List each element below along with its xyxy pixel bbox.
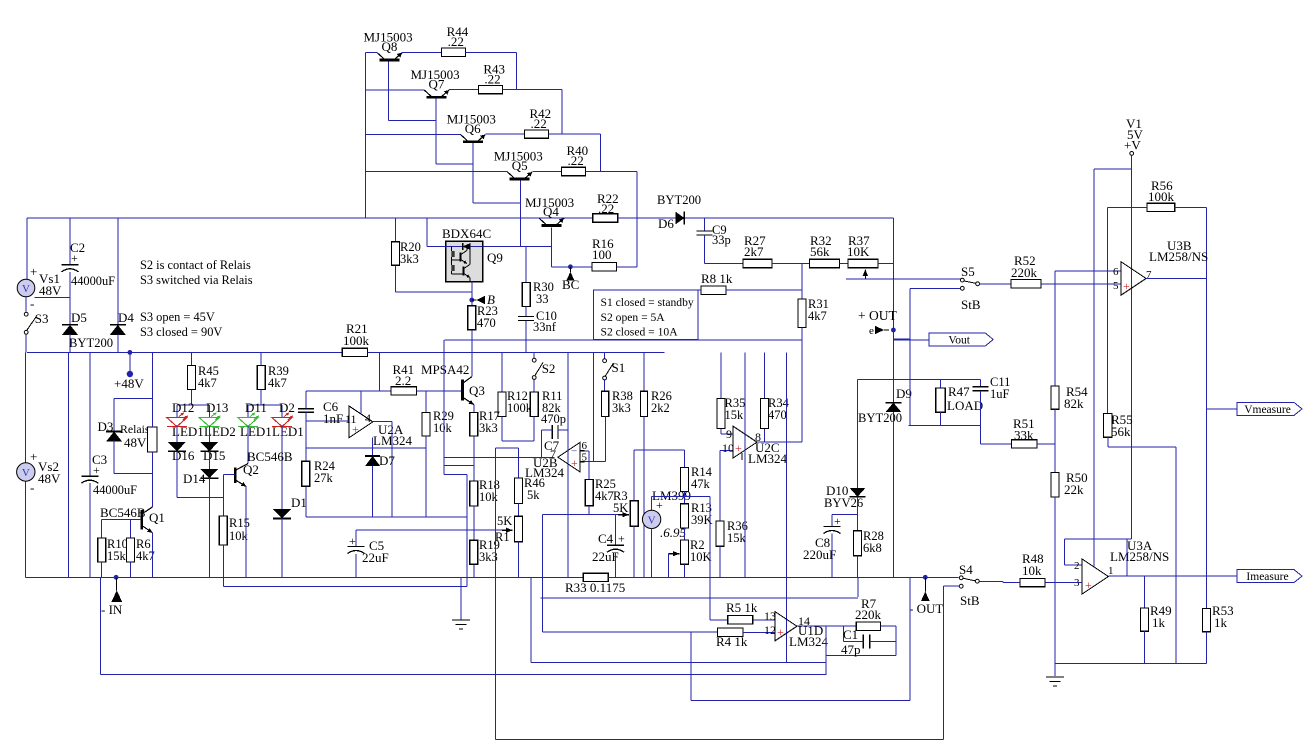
- wire R49 bottom lead: [1144, 631, 1146, 663]
- wire D14 bottom to bus: [208, 478, 210, 578]
- wire R37 to out column: [878, 263, 893, 265]
- wire U2C output: [757, 441, 802, 443]
- wire R52 to U3B pin5: [1041, 283, 1121, 285]
- svg-text:470: 470: [477, 316, 496, 330]
- wire R39 top lead: [260, 352, 262, 365]
- svg-text:Q8: Q8: [382, 39, 398, 54]
- diode D9: [885, 402, 901, 404]
- wire U1D output: [797, 625, 856, 627]
- svg-text:2.2: 2.2: [395, 373, 411, 388]
- resistor R21: [342, 348, 367, 356]
- wire sense column: [495, 448, 497, 740]
- resistor R5: [728, 616, 753, 624]
- info box: [594, 290, 699, 339]
- svg-text:+: +: [777, 625, 784, 639]
- svg-text:10k: 10k: [433, 421, 453, 435]
- wire D2 top lead: [281, 405, 283, 417]
- wire S4 throw down: [943, 586, 945, 740]
- svg-text:+: +: [1123, 279, 1130, 293]
- resistor R18: [470, 481, 478, 506]
- svg-text:D1: D1: [291, 495, 307, 510]
- switch S2 lever: [535, 363, 543, 376]
- svg-text:48V: 48V: [38, 471, 61, 486]
- wire R20 bottom lead: [395, 265, 397, 292]
- svg-text:+: +: [30, 264, 37, 279]
- wire link 663: [531, 662, 826, 664]
- svg-text:1uF: 1uF: [990, 387, 1010, 401]
- wire U2C pin10: [720, 450, 733, 452]
- svg-text:R33 0.1175: R33 0.1175: [565, 580, 625, 595]
- capacitor C9: [697, 230, 713, 232]
- LED D13 green: [199, 418, 219, 427]
- resistor R14: [681, 467, 689, 491]
- svg-text:4k7: 4k7: [808, 309, 827, 323]
- resistor R51: [1012, 440, 1037, 448]
- transistor Q1: [141, 510, 144, 530]
- wire D10 to R28: [857, 497, 859, 531]
- wire D3 cathode lead: [113, 399, 115, 432]
- wire mid net long: [444, 339, 802, 341]
- svg-text:e: e: [869, 325, 874, 337]
- wire D7 bottom: [372, 466, 374, 517]
- wire mid rail: [27, 351, 343, 353]
- wire U3B output: [1146, 278, 1207, 280]
- switch S3 contact 2: [24, 330, 28, 334]
- wire R40 down to next row: [636, 172, 638, 219]
- svg-text:LM324: LM324: [748, 451, 788, 466]
- wire S5 lower throw: [910, 287, 960, 289]
- wire relay to Q1 collector: [151, 474, 153, 507]
- wire R14 to R13: [684, 492, 686, 504]
- wire R28 bottom: [857, 556, 859, 578]
- wire C6 to R24: [305, 412, 307, 461]
- arrow R37 wiper: [864, 269, 866, 279]
- svg-text:R5 1k: R5 1k: [726, 600, 758, 615]
- wire long return net: [100, 673, 826, 675]
- transistor Q2: [234, 467, 237, 483]
- svg-text:+ OUT: + OUT: [858, 308, 897, 323]
- wire R15 under-bus link: [223, 586, 467, 588]
- wire R16 to corner: [616, 266, 637, 268]
- wire S3 to bottom rail: [25, 335, 27, 353]
- wire link to bus: [857, 577, 859, 597]
- node B arrow: [476, 296, 485, 304]
- wire jog column down: [466, 475, 468, 587]
- svg-text:.22: .22: [568, 153, 584, 168]
- wire LED feed split left: [177, 404, 209, 406]
- svg-text:S1 closed = standby: S1 closed = standby: [601, 296, 694, 309]
- wire S2 stub: [533, 352, 535, 358]
- wire Q5 base down: [519, 181, 521, 247]
- transistor Q6 MJ15003: [463, 140, 483, 143]
- wire R32 to R37: [840, 263, 849, 265]
- resistor R43: [478, 85, 502, 93]
- resistor R52: [1011, 280, 1041, 288]
- wire R25 bottom: [588, 506, 590, 515]
- svg-text:47p: 47p: [841, 642, 861, 657]
- wire R56 right lead: [1175, 206, 1207, 208]
- svg-text:S2 open = 5A: S2 open = 5A: [601, 311, 666, 324]
- node +OUT arrow: [875, 326, 884, 334]
- junction -IN: [114, 575, 119, 580]
- ground mid: [452, 619, 470, 621]
- wire negative column: [68, 352, 70, 577]
- svg-text:- OUT: - OUT: [909, 601, 943, 616]
- resistor R56: [1147, 203, 1175, 211]
- capacitor C4: [607, 544, 624, 546]
- svg-text:5k: 5k: [527, 488, 540, 502]
- switch S1 contact 2: [603, 376, 607, 380]
- svg-text:56k: 56k: [810, 244, 830, 259]
- svg-text:S3 switched via Relais: S3 switched via Relais: [140, 273, 253, 287]
- svg-text:44000uF: 44000uF: [71, 274, 115, 288]
- arrow R2 wiper: [668, 553, 679, 555]
- resistor R26: [640, 391, 647, 416]
- wire R3 bottom to bus: [633, 526, 635, 577]
- wire S1 stub: [604, 352, 606, 358]
- resistor R48: [1020, 578, 1045, 586]
- svg-text:220k: 220k: [855, 607, 882, 622]
- resistor R36: [716, 521, 724, 546]
- svg-text:5: 5: [1113, 280, 1119, 292]
- svg-text:47k: 47k: [691, 477, 711, 491]
- wire R55 to ground column: [1108, 446, 1176, 448]
- resistor R17: [470, 412, 478, 436]
- wire S4 to R48: [1003, 582, 1020, 584]
- wire divider net: [306, 516, 467, 518]
- switch S4 lever: [963, 578, 975, 581]
- svg-text:V: V: [22, 467, 30, 479]
- wire R42 down to next row: [599, 134, 601, 172]
- svg-text:48V: 48V: [124, 435, 147, 450]
- wire Q8 collector: [365, 52, 377, 54]
- resistor R37 trimmer: [848, 259, 878, 267]
- svg-text:1k: 1k: [1214, 615, 1228, 630]
- resistor R38: [602, 391, 609, 416]
- wire R15 bottom crossing bus: [222, 545, 224, 587]
- svg-text:Relais: Relais: [120, 422, 150, 436]
- resistor R55: [1104, 413, 1113, 437]
- wire D5 anode to rail: [69, 334, 71, 353]
- switch S4 contact 2: [959, 584, 963, 588]
- wire R8 right to R31 column: [726, 289, 802, 291]
- resistor R53: [1203, 608, 1211, 631]
- svg-text:Q2: Q2: [243, 462, 259, 477]
- wire D11 to Q2 collector: [247, 426, 249, 464]
- wire C1 left lead: [843, 641, 863, 643]
- wire U3A output to Imeasure: [1109, 575, 1238, 577]
- wire R37 wiper to S5: [846, 278, 961, 280]
- svg-text:LM324: LM324: [789, 634, 829, 649]
- resistor R23: [468, 306, 476, 330]
- wire Q6 collector: [365, 133, 460, 135]
- wire S4 common out: [979, 580, 1003, 582]
- wire R26 top lead: [643, 352, 645, 391]
- wire D15 to D14: [208, 451, 210, 469]
- svg-text:BDX64C: BDX64C: [442, 226, 491, 241]
- svg-text:LED2: LED2: [204, 424, 236, 439]
- wire R10 top lead: [101, 520, 103, 538]
- svg-text:MPSA42: MPSA42: [421, 362, 469, 377]
- wire R56 feedback down: [1206, 207, 1208, 278]
- op-amp U3B: [1121, 262, 1146, 296]
- resistor R32: [810, 259, 840, 267]
- wire R55 bottom lead: [1107, 437, 1109, 447]
- svg-text:15k: 15k: [107, 549, 127, 563]
- svg-text:S2 is contact of Relais: S2 is contact of Relais: [140, 258, 251, 272]
- wire R46 top lead: [517, 448, 519, 478]
- relay coil K1: [148, 427, 158, 452]
- wire C4 bottom lead: [615, 553, 617, 577]
- resistor R25: [585, 480, 593, 506]
- node BC arrow: [566, 272, 574, 281]
- svg-text:C7: C7: [544, 438, 560, 453]
- svg-text:100k: 100k: [343, 333, 370, 348]
- wire R51 right lead: [1037, 443, 1055, 445]
- wire R12 top lead: [501, 352, 503, 392]
- wire U2A output: [373, 421, 392, 423]
- wire ground net: [1055, 663, 1207, 665]
- svg-text:D16: D16: [172, 448, 195, 463]
- wire R39 bottom lead: [260, 390, 262, 405]
- wire load top net: [858, 379, 981, 381]
- wire feedback left: [1064, 539, 1066, 565]
- potentiometer R1: [514, 516, 522, 541]
- svg-text:S2: S2: [542, 361, 556, 376]
- svg-text:10k: 10k: [229, 529, 249, 543]
- wire rail down to +OUT: [892, 218, 894, 330]
- resistor R13: [681, 504, 689, 528]
- wire R10 bottom lead: [101, 562, 103, 577]
- svg-text:+: +: [352, 422, 359, 436]
- svg-text:+: +: [93, 463, 100, 477]
- wire rail after D6: [686, 217, 894, 219]
- svg-text:D4: D4: [118, 310, 134, 325]
- svg-text:1nF: 1nF: [323, 411, 343, 426]
- wire R50 to ground net: [1054, 497, 1056, 664]
- wire jog right: [444, 474, 467, 476]
- svg-text:15k: 15k: [727, 531, 747, 545]
- resistor R24: [302, 461, 310, 486]
- wire R22 to D6: [618, 217, 676, 219]
- wire V1 branch: [1094, 168, 1132, 170]
- wire Q1 emitter to bus: [151, 533, 153, 578]
- wire R56 to R55 column: [1106, 207, 1108, 413]
- wire R8 left lead: [594, 289, 702, 291]
- wire U3A feedback top: [1065, 538, 1132, 540]
- wire D3 anode lead: [113, 441, 115, 474]
- svg-text:S3 closed = 90V: S3 closed = 90V: [140, 325, 222, 339]
- flag Vmeasure: [1237, 402, 1302, 415]
- wire U2A output down: [391, 422, 393, 517]
- wire aux column: [530, 577, 532, 662]
- capacitor C5: [348, 546, 365, 548]
- svg-text:S4: S4: [959, 562, 973, 577]
- wire relay coil bottom: [151, 452, 153, 474]
- capacitor C1: [862, 635, 864, 649]
- wire D12 top lead: [176, 405, 178, 417]
- U2C power stub: [741, 453, 743, 460]
- wire +OUT down to D9: [892, 330, 894, 403]
- svg-text:44000uF: 44000uF: [93, 483, 137, 497]
- diode D16: [168, 442, 186, 452]
- wire Q4 base to R16: [551, 266, 592, 268]
- svg-text:13: 13: [764, 609, 776, 623]
- node -OUT arrow: [921, 592, 930, 601]
- wire U2A to D7: [372, 438, 374, 456]
- wire mid rail right: [368, 351, 665, 353]
- wire C9 top lead: [704, 218, 706, 231]
- wire V1 to U3A supply: [1093, 169, 1095, 567]
- svg-text:22k: 22k: [1064, 482, 1084, 497]
- svg-text:3k3: 3k3: [612, 401, 631, 415]
- capacitor C11: [973, 386, 989, 388]
- diode D15: [200, 442, 218, 452]
- wire R38 bottom to pin5 net: [604, 416, 606, 461]
- wire R47 bottom lead: [940, 412, 942, 425]
- wire R35 top lead: [720, 352, 722, 398]
- wire R26 bottom lead: [643, 416, 645, 450]
- wire R41 left: [306, 390, 391, 392]
- wire R24 bottom lead: [305, 486, 307, 517]
- wire Q2 base to R15: [222, 475, 224, 517]
- resistor R31: [798, 299, 806, 328]
- svg-text:27k: 27k: [314, 471, 334, 485]
- wire R3 top lead: [633, 450, 635, 501]
- wire R47 top lead: [940, 380, 942, 388]
- wire R30 top lead: [525, 247, 527, 283]
- resistor R40: [562, 167, 586, 175]
- wire R56 left lead: [1107, 206, 1147, 208]
- svg-text:1k: 1k: [1152, 615, 1166, 630]
- svg-text:BC546B: BC546B: [100, 505, 146, 520]
- potentiometer R3: [630, 501, 638, 527]
- svg-text:6k8: 6k8: [863, 541, 882, 555]
- wire base drive net: [427, 246, 552, 248]
- svg-text:5K: 5K: [613, 501, 628, 515]
- svg-text:33nf: 33nf: [533, 320, 557, 334]
- wire link to R46: [496, 447, 519, 449]
- wire Q7-Q6 base link: [436, 163, 473, 165]
- wire D2 to D1: [281, 426, 283, 510]
- resistor R50: [1051, 473, 1059, 497]
- svg-text:-: -: [30, 480, 34, 495]
- flag Imeasure: [1237, 570, 1302, 583]
- svg-text:33: 33: [536, 292, 549, 306]
- wire R29 top lead: [425, 391, 427, 413]
- svg-text:S5: S5: [961, 264, 975, 279]
- svg-text:100: 100: [592, 247, 612, 262]
- svg-text:22uF: 22uF: [362, 550, 389, 565]
- wire Q6 emitter to R42: [485, 133, 524, 135]
- resistor R15: [219, 516, 227, 545]
- wire U2B pin5 net: [585, 461, 606, 463]
- wire relay coil top: [151, 399, 153, 427]
- capacitor C2: [62, 264, 79, 266]
- wire R45 top lead: [191, 352, 193, 365]
- svg-text:Vmeasure: Vmeasure: [1244, 404, 1291, 416]
- switch S5 common: [976, 282, 980, 286]
- wire D11 top lead: [247, 405, 249, 417]
- wire C1 right lead: [870, 641, 896, 643]
- svg-text:V: V: [648, 514, 656, 526]
- node -IN arrow: [112, 590, 123, 602]
- svg-text:LED1: LED1: [240, 424, 272, 439]
- wire Q3 emitter to R17: [473, 405, 475, 413]
- wire C11 top lead: [980, 380, 982, 387]
- wire R27 to R32: [772, 263, 810, 265]
- wire R22 node down to R16: [636, 218, 638, 267]
- wire C5 bottom lead: [355, 554, 357, 577]
- wire Vs1 minus lead: [25, 297, 27, 312]
- wire Q4 base down: [550, 228, 552, 267]
- wire U1D output down: [825, 626, 827, 674]
- wire C9 bottom lead: [704, 235, 706, 264]
- resistor R47 load: [936, 388, 946, 412]
- wire C3 top lead: [89, 352, 91, 475]
- wire LED feed split right: [248, 404, 282, 406]
- wire C11 bottom lead: [980, 391, 982, 444]
- transistor Q7 MJ15003: [427, 96, 447, 99]
- wire R53 from Vmeasure: [1206, 409, 1208, 609]
- svg-text:9: 9: [726, 427, 732, 441]
- wire R29 bottom lead: [425, 436, 427, 517]
- junction +OUT: [891, 328, 896, 333]
- wire Q8 base down: [388, 62, 390, 121]
- svg-text:D7: D7: [379, 453, 395, 468]
- svg-text:4: 4: [365, 411, 371, 425]
- svg-text:R15: R15: [229, 516, 250, 530]
- svg-text:LM258/NS: LM258/NS: [1110, 549, 1169, 564]
- svg-text:5K: 5K: [497, 514, 512, 528]
- transistor Q4 MJ15003: [541, 224, 561, 227]
- wire U2B pin6 out: [585, 450, 590, 452]
- wire Q8 emitter to R44: [402, 51, 442, 53]
- wire R20 to emitter node: [396, 291, 472, 293]
- wire load bottom net: [909, 425, 981, 427]
- wire Vs2 top lead: [25, 352, 27, 462]
- LED D2 red: [272, 418, 292, 427]
- svg-text:BYT200: BYT200: [69, 336, 113, 350]
- wire S5 to R52: [980, 283, 1011, 285]
- wire C4 top lead: [615, 515, 617, 546]
- resistor R35: [717, 399, 725, 429]
- resistor R28: [854, 531, 862, 556]
- wire Q5 collector: [365, 171, 507, 173]
- wire Vout tap: [893, 338, 909, 340]
- wire R3 to LM399 node: [634, 449, 684, 451]
- wire relay top node: [114, 398, 152, 400]
- svg-text:+: +: [571, 456, 578, 470]
- op-amp U2A: [349, 406, 373, 438]
- wire R19 bottom: [473, 564, 475, 577]
- wire R20 top lead: [395, 218, 397, 242]
- wire R49 top lead: [1144, 576, 1146, 608]
- wire U2B output net: [444, 457, 554, 459]
- switch S3 lever: [27, 317, 36, 330]
- op-amp U3A: [1082, 559, 1109, 594]
- wire bottom bus right: [608, 576, 959, 578]
- svg-text:BYT200: BYT200: [657, 193, 701, 207]
- svg-text:+: +: [71, 251, 78, 265]
- svg-text:100k: 100k: [1148, 189, 1175, 204]
- svg-text:.22: .22: [448, 34, 464, 49]
- switch S4 contact 1: [959, 576, 963, 580]
- wire R18 to R19: [473, 506, 475, 540]
- wire R1 bottom: [517, 542, 519, 578]
- wire -out return link: [691, 700, 910, 702]
- wire R36 top lead: [719, 451, 721, 521]
